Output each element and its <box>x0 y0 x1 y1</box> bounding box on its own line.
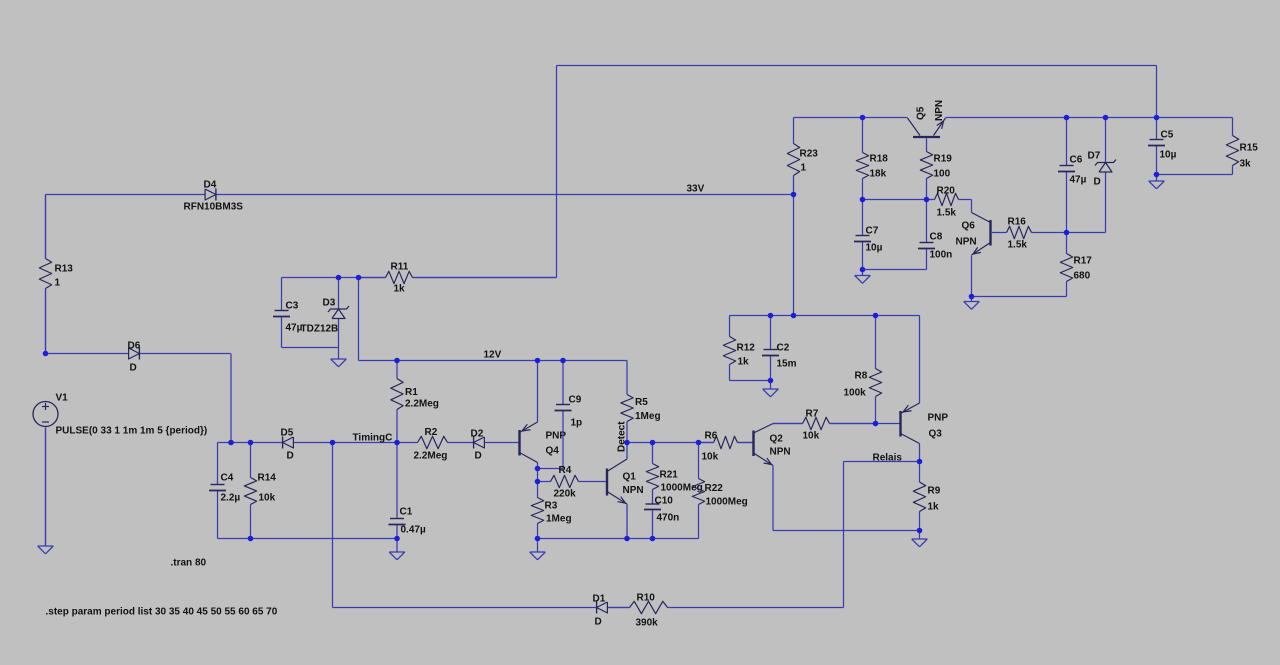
svg-text:NPN: NPN <box>956 237 977 248</box>
net label TimingC <box>353 433 393 444</box>
svg-text:33V: 33V <box>687 184 705 195</box>
svg-text:15m: 15m <box>777 359 797 370</box>
svg-text:47µ: 47µ <box>1070 175 1087 186</box>
svg-text:1k: 1k <box>394 284 406 295</box>
svg-text:D4: D4 <box>204 180 217 191</box>
svg-text:Q2: Q2 <box>770 434 784 445</box>
svg-text:C9: C9 <box>569 395 582 406</box>
wire C5 gnd to R15 <box>1157 174 1233 176</box>
junction at 971,296 <box>969 294 975 300</box>
junction at 862,199 <box>860 197 866 203</box>
svg-text:R5: R5 <box>635 397 648 408</box>
svg-text:PNP: PNP <box>928 413 949 424</box>
svg-text:R13: R13 <box>55 264 74 275</box>
svg-text:D: D <box>475 451 482 462</box>
svg-text:C2: C2 <box>777 343 790 354</box>
resistor R21 <box>646 443 702 505</box>
svg-text:TDZ12B: TDZ12B <box>301 324 339 335</box>
junction at 396.5,360 <box>394 358 400 364</box>
svg-text:PULSE(0 33 1 1m 1m 5 {period}): PULSE(0 33 1 1m 1m 5 {period}) <box>56 426 208 437</box>
wire R23 top <box>793 118 795 144</box>
diode D4 <box>184 180 244 213</box>
resistor R9 <box>913 462 940 531</box>
junction at 537,538 <box>535 536 541 542</box>
resistor R11 <box>359 262 557 295</box>
svg-text:R9: R9 <box>928 486 941 497</box>
junction at 1105,117 <box>1103 115 1109 121</box>
svg-text:R16: R16 <box>1008 217 1027 228</box>
directive .step <box>46 607 278 618</box>
svg-text:0.47µ: 0.47µ <box>401 525 426 536</box>
wire C3 D3 bottom link <box>282 347 339 349</box>
svg-text:D1: D1 <box>593 594 606 605</box>
svg-text:R21: R21 <box>660 470 679 481</box>
svg-text:R10: R10 <box>637 593 656 604</box>
directive .tran <box>171 558 207 569</box>
svg-text:1p: 1p <box>571 418 583 429</box>
resistor R6 <box>699 431 754 463</box>
resistor R22 <box>692 443 747 539</box>
svg-text:R14: R14 <box>258 473 277 484</box>
junction at 862,117 <box>860 115 866 121</box>
svg-text:R1: R1 <box>405 387 418 398</box>
svg-text:D2: D2 <box>471 429 484 440</box>
svg-text:V1: V1 <box>56 393 69 404</box>
svg-text:100: 100 <box>934 169 951 180</box>
svg-text:R19: R19 <box>934 154 953 165</box>
ground below Q6 <box>964 297 980 310</box>
resistor R10 <box>609 593 668 629</box>
svg-text:2.2Meg: 2.2Meg <box>405 399 439 410</box>
svg-text:Q4: Q4 <box>546 446 560 457</box>
svg-text:D5: D5 <box>281 428 294 439</box>
svg-text:C6: C6 <box>1070 155 1083 166</box>
svg-text:D7: D7 <box>1088 151 1101 162</box>
wire C4 R14 bottom rail <box>218 538 398 540</box>
wire 12V riser <box>358 278 360 361</box>
junction at 338,277 <box>336 275 342 281</box>
svg-text:470n: 470n <box>657 513 680 524</box>
resistor R15 <box>1226 118 1258 175</box>
svg-text:R6: R6 <box>705 431 718 442</box>
junction at 537,481 <box>535 479 541 485</box>
resistor R4 <box>538 465 608 500</box>
svg-text:C8: C8 <box>930 232 943 243</box>
junction at 793,194 <box>791 192 797 198</box>
junction at 230.5,442 <box>228 440 234 446</box>
svg-text:680: 680 <box>1074 271 1091 282</box>
capacitor C9 <box>555 361 583 469</box>
junction at 562.5,360 <box>560 358 566 364</box>
transistor Q6 <box>956 213 991 256</box>
junction at 919,461 <box>917 459 923 465</box>
wire upper rail <box>794 117 1233 119</box>
resistor R20 <box>927 186 959 219</box>
svg-text:1Meg: 1Meg <box>635 411 661 422</box>
ground below C5 <box>1149 175 1165 189</box>
svg-text:100n: 100n <box>930 250 953 261</box>
capacitor C10 <box>644 496 679 539</box>
zener diode D3 <box>301 278 350 348</box>
resistor R14 <box>244 443 276 539</box>
wire left vertical below R13 <box>45 289 47 354</box>
svg-text:Q6: Q6 <box>962 221 976 232</box>
svg-text:R15: R15 <box>1240 143 1259 154</box>
net label Relais <box>873 453 903 464</box>
wire right gnd rail <box>538 538 699 540</box>
svg-text:C7: C7 <box>866 226 879 237</box>
capacitor C2 <box>762 316 797 381</box>
wire top rail right drop to C5 <box>1156 66 1158 118</box>
wire top rail <box>557 65 1157 67</box>
junction at 358,277 <box>356 275 362 281</box>
svg-text:.step param period list 30 35: .step param period list 30 35 40 45 50 5… <box>46 607 278 618</box>
wire top rail left drop to R11 <box>556 66 558 278</box>
wire Q6 emitter drop <box>971 256 973 297</box>
svg-text:10k: 10k <box>259 493 276 504</box>
wire V1 to ground <box>45 428 47 547</box>
svg-text:Q5: Q5 <box>916 106 927 120</box>
capacitor C5 <box>1148 118 1177 175</box>
junction at 926,199 <box>924 197 930 203</box>
net label 12V <box>484 350 502 361</box>
wire C7 C8 bottom <box>863 269 927 271</box>
junction at 652,538 <box>650 536 656 542</box>
net label 33V <box>687 184 705 195</box>
transistor Q3 <box>901 316 949 462</box>
svg-text:10µ: 10µ <box>866 243 883 254</box>
svg-text:220k: 220k <box>554 489 577 500</box>
svg-text:C3: C3 <box>286 301 299 312</box>
wire Q2 emitter gnd rail <box>773 530 920 532</box>
svg-text:Relais: Relais <box>873 453 903 464</box>
junction at 770,380 <box>768 378 774 384</box>
wire TimingC drop to relay loop <box>332 443 334 608</box>
resistor R16 <box>991 217 1067 251</box>
junction at 875,315 <box>873 313 879 319</box>
svg-text:R12: R12 <box>737 343 756 354</box>
wire D6 to TimingC drop <box>142 354 232 443</box>
ground below C2 <box>763 381 779 397</box>
svg-text:R23: R23 <box>800 149 819 160</box>
junction at 1066,232 <box>1064 230 1070 236</box>
svg-text:R22: R22 <box>705 483 724 494</box>
junction at 875,423 <box>873 421 879 427</box>
svg-text:1Meg: 1Meg <box>546 514 572 525</box>
diode D5 <box>281 428 296 462</box>
svg-text:100k: 100k <box>844 388 867 399</box>
wire Relais link <box>844 461 920 463</box>
wire left vertical V1 branch top <box>45 195 47 259</box>
wire 33V riser to mid rail <box>793 195 795 316</box>
wire D7 to R16 node <box>1067 232 1106 234</box>
junction at 626.5,442 <box>624 440 630 446</box>
wire R18 R20 node <box>863 199 927 201</box>
transistor Q2 <box>754 424 791 466</box>
resistor R7 <box>773 409 876 442</box>
svg-text:1000Meg: 1000Meg <box>706 497 748 508</box>
resistor R8 <box>844 316 882 424</box>
capacitor C3 <box>273 278 303 348</box>
svg-text:10µ: 10µ <box>1160 150 1177 161</box>
junction at 250,442 <box>248 440 254 446</box>
junction at 793,315 <box>791 313 797 319</box>
ground below C7 <box>855 270 871 284</box>
wire Q2 collector to R7 row <box>773 423 876 425</box>
wire bottom relay rail <box>333 607 844 609</box>
wire 33V rail from V1 corner to R23 <box>46 194 794 196</box>
svg-text:R18: R18 <box>870 154 889 165</box>
svg-text:TimingC: TimingC <box>353 433 393 444</box>
junction at 396.5,538 <box>394 536 400 542</box>
wire D6 link from V1 <box>46 353 127 355</box>
svg-text:R20: R20 <box>937 186 956 197</box>
svg-text:D: D <box>1094 177 1101 188</box>
svg-text:NPN: NPN <box>934 100 945 121</box>
junction at 1156,174 <box>1154 172 1160 178</box>
svg-text:2.2Meg: 2.2Meg <box>414 451 448 462</box>
svg-text:RFN10BM3S: RFN10BM3S <box>184 202 244 213</box>
svg-text:1k: 1k <box>928 502 940 513</box>
wire Q3 base link <box>876 423 901 425</box>
svg-text:R17: R17 <box>1074 256 1093 267</box>
svg-text:3k: 3k <box>1240 159 1252 170</box>
wire Detect row <box>627 442 754 444</box>
svg-text:NPN: NPN <box>623 485 644 496</box>
resistor R18 <box>856 118 888 200</box>
svg-text:1: 1 <box>801 163 807 174</box>
wire R20 to Q6 collector <box>959 200 972 213</box>
junction at 537,468 <box>535 466 541 472</box>
resistor R2 <box>414 427 448 462</box>
svg-text:D: D <box>287 451 294 462</box>
junction at 626.5,538 <box>624 536 630 542</box>
resistor R1 <box>391 361 439 443</box>
svg-text:C10: C10 <box>655 496 674 507</box>
svg-text:C1: C1 <box>400 507 413 518</box>
junction at 396.5,442 <box>394 440 400 446</box>
resistor R5 <box>621 361 661 443</box>
svg-text:10k: 10k <box>702 452 719 463</box>
resistor R19 <box>920 152 952 200</box>
zener diode D7 <box>1088 118 1117 233</box>
junction at 652,442 <box>650 440 656 446</box>
svg-text:Detect: Detect <box>617 421 628 452</box>
wire 12V rail <box>359 360 628 362</box>
svg-text:D6: D6 <box>128 341 141 352</box>
svg-text:.tran 80: .tran 80 <box>171 558 207 569</box>
junction at 770,315 <box>768 313 774 319</box>
svg-text:C4: C4 <box>221 473 234 484</box>
diode D6 <box>127 341 142 374</box>
svg-text:C5: C5 <box>1161 130 1174 141</box>
junction at 698,442 <box>696 440 702 446</box>
svg-text:R4: R4 <box>559 465 572 476</box>
capacitor C6 <box>1058 118 1087 233</box>
junction at 1066,117 <box>1064 115 1070 121</box>
svg-text:1.5k: 1.5k <box>937 208 957 219</box>
wire R12 C2 bottom <box>730 380 771 382</box>
svg-text:1k: 1k <box>738 357 750 368</box>
wire mid rail R12 C2 R8 <box>730 315 920 317</box>
transistor Q1 <box>607 443 644 539</box>
svg-text:NPN: NPN <box>770 447 791 458</box>
junction at 332,442 <box>330 440 336 446</box>
junction at 250,538 <box>248 536 254 542</box>
junction at 537,360 <box>535 358 541 364</box>
net label Detect <box>617 421 628 452</box>
resistor R3 <box>531 498 571 525</box>
resistor R12 <box>723 316 755 381</box>
svg-text:390k: 390k <box>636 618 659 629</box>
ground below R3 <box>530 539 546 560</box>
junction at 45,353 <box>43 351 49 357</box>
ground below R9 <box>912 531 928 547</box>
resistor R23 <box>787 144 818 195</box>
svg-text:18k: 18k <box>870 169 887 180</box>
resistor R17 <box>1060 233 1092 282</box>
transistor Q4 <box>520 361 567 463</box>
wire Q6 gnd to R17 <box>972 282 1067 297</box>
svg-text:1: 1 <box>55 278 61 289</box>
wire Q4 collector to C9 link <box>538 468 564 470</box>
wire relay riser <box>843 462 845 608</box>
capacitor C8 <box>918 200 952 270</box>
svg-text:2.2µ: 2.2µ <box>221 493 241 504</box>
svg-text:D3: D3 <box>323 298 336 309</box>
ground below V1 <box>38 428 54 554</box>
svg-text:D: D <box>130 363 137 374</box>
svg-text:R8: R8 <box>855 371 868 382</box>
voltage source V1 <box>33 393 207 437</box>
capacitor C1 <box>389 443 426 539</box>
diode D1 <box>589 594 610 628</box>
wire R11 row <box>282 277 557 279</box>
svg-text:Q1: Q1 <box>623 472 637 483</box>
wire TimingC rail <box>218 442 520 444</box>
svg-text:R2: R2 <box>425 427 438 438</box>
wire Q4 collector column <box>537 463 539 539</box>
svg-text:R3: R3 <box>545 501 558 512</box>
ground below C1 <box>389 539 405 560</box>
junction at 862,269 <box>860 267 866 273</box>
svg-text:1.5k: 1.5k <box>1008 240 1028 251</box>
svg-text:12V: 12V <box>484 350 502 361</box>
svg-text:R7: R7 <box>806 409 819 420</box>
capacitor C4 <box>209 443 240 539</box>
ground below D3 <box>331 348 347 367</box>
diode D2 <box>465 429 486 462</box>
junction at 919,530 <box>917 528 923 534</box>
resistor R13 <box>39 195 73 354</box>
svg-text:R11: R11 <box>391 262 409 273</box>
svg-text:D: D <box>595 617 602 628</box>
transistor Q5 <box>908 100 946 152</box>
svg-text:Q3: Q3 <box>929 429 943 440</box>
capacitor C7 <box>854 200 883 270</box>
junction at 1156,117 <box>1154 115 1160 121</box>
wire Q2 emitter drop <box>772 466 774 531</box>
svg-text:10k: 10k <box>803 431 820 442</box>
